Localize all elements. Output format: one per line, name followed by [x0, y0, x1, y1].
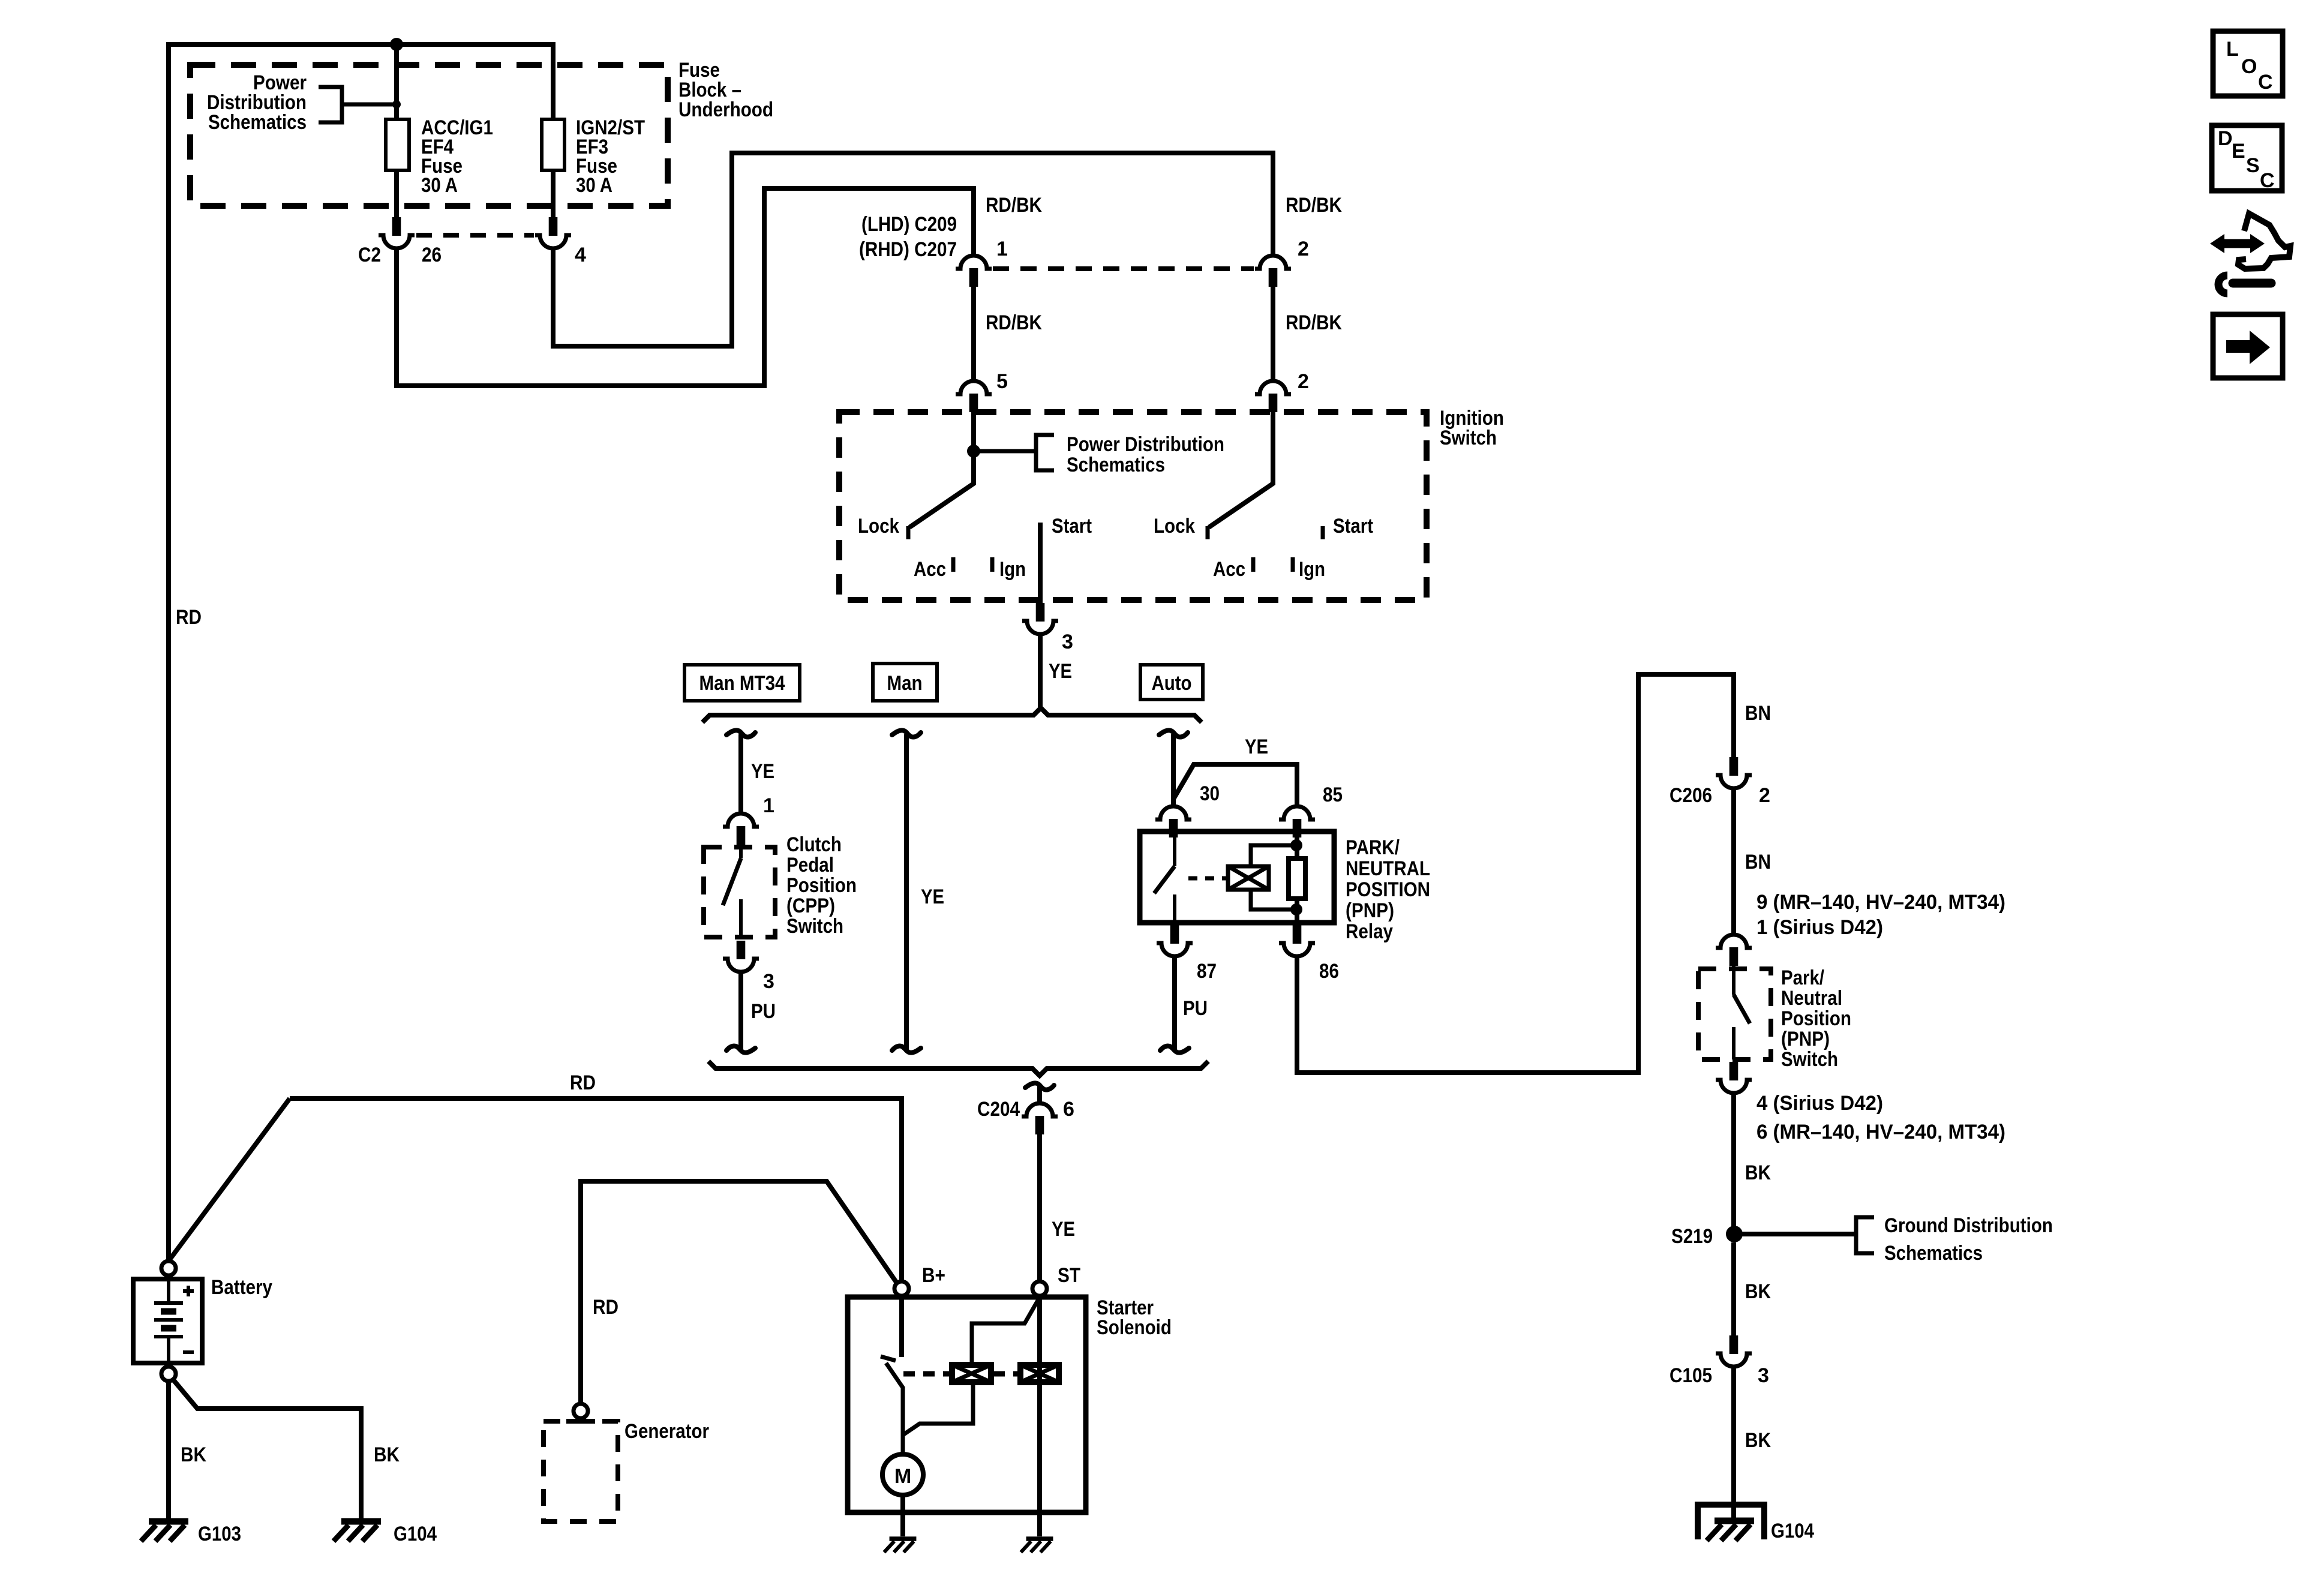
svg-text:Neutral: Neutral	[1781, 987, 1842, 1010]
svg-text:(PNP): (PNP)	[1781, 1028, 1830, 1050]
svg-text:Auto: Auto	[1152, 672, 1192, 695]
svg-text:4: 4	[575, 244, 586, 266]
svg-text:BK: BK	[1745, 1161, 1771, 1184]
svg-text:BN: BN	[1745, 851, 1771, 873]
svg-text:5: 5	[996, 370, 1008, 393]
svg-text:E: E	[2232, 140, 2245, 163]
svg-text:C2: C2	[358, 244, 381, 266]
svg-text:C204: C204	[977, 1098, 1020, 1121]
svg-text:BK: BK	[181, 1443, 206, 1466]
svg-text:Park/: Park/	[1781, 966, 1824, 989]
svg-text:S219: S219	[1671, 1225, 1713, 1248]
svg-text:6 (MR–140, HV–240, MT34): 6 (MR–140, HV–240, MT34)	[1756, 1121, 2005, 1143]
svg-text:Man MT34: Man MT34	[699, 672, 785, 695]
svg-text:RD: RD	[593, 1296, 618, 1319]
svg-text:RD/BK: RD/BK	[986, 311, 1042, 334]
svg-text:Generator: Generator	[624, 1420, 709, 1443]
svg-text:BN: BN	[1745, 702, 1771, 725]
svg-text:BK: BK	[1745, 1429, 1771, 1452]
svg-text:Clutch: Clutch	[786, 833, 842, 856]
svg-text:ST: ST	[1058, 1264, 1080, 1287]
svg-text:Battery: Battery	[211, 1276, 272, 1299]
svg-text:30 A: 30 A	[576, 174, 612, 197]
svg-text:POSITION: POSITION	[1346, 878, 1430, 901]
svg-text:YE: YE	[1245, 736, 1268, 758]
svg-text:S: S	[2246, 154, 2260, 177]
svg-text:M: M	[894, 1465, 911, 1488]
svg-text:PARK/: PARK/	[1346, 836, 1400, 859]
svg-text:Start: Start	[1333, 515, 1373, 538]
svg-text:Relay: Relay	[1346, 920, 1393, 943]
svg-text:NEUTRAL: NEUTRAL	[1346, 857, 1430, 880]
svg-text:3: 3	[1062, 631, 1073, 653]
svg-text:1 (Sirius D42): 1 (Sirius D42)	[1756, 916, 1883, 939]
svg-text:Man: Man	[887, 672, 923, 695]
svg-text:Solenoid: Solenoid	[1097, 1316, 1172, 1339]
svg-text:85: 85	[1323, 784, 1343, 806]
svg-text:2: 2	[1298, 238, 1309, 260]
svg-text:Position: Position	[786, 874, 857, 897]
svg-text:Switch: Switch	[1440, 427, 1497, 449]
svg-text:30: 30	[1200, 782, 1220, 805]
svg-text:G103: G103	[198, 1523, 241, 1545]
svg-text:Schematics: Schematics	[208, 111, 307, 134]
svg-text:RD: RD	[570, 1071, 596, 1094]
svg-text:1: 1	[996, 238, 1008, 260]
svg-text:RD/BK: RD/BK	[1286, 311, 1342, 334]
svg-text:C105: C105	[1670, 1364, 1712, 1387]
svg-text:(LHD) C209: (LHD) C209	[861, 213, 957, 236]
svg-text:2: 2	[1298, 370, 1309, 393]
svg-text:YE: YE	[1049, 660, 1072, 683]
svg-text:Underhood: Underhood	[678, 98, 773, 121]
svg-text:Lock: Lock	[858, 515, 899, 538]
svg-text:Switch: Switch	[1781, 1048, 1838, 1071]
svg-text:YE: YE	[1052, 1218, 1075, 1241]
svg-text:Schematics: Schematics	[1884, 1242, 1983, 1265]
svg-text:G104: G104	[394, 1523, 437, 1545]
svg-text:C206: C206	[1670, 784, 1712, 807]
svg-text:Switch: Switch	[786, 915, 843, 938]
svg-text:BK: BK	[1745, 1280, 1771, 1303]
svg-text:Schematics: Schematics	[1067, 454, 1165, 476]
svg-text:Power Distribution: Power Distribution	[1067, 433, 1224, 456]
svg-text:YE: YE	[921, 885, 944, 908]
svg-text:Position: Position	[1781, 1007, 1851, 1030]
svg-text:YE: YE	[751, 760, 774, 783]
svg-text:3: 3	[1758, 1364, 1769, 1387]
svg-text:PU: PU	[751, 1000, 776, 1023]
svg-text:B+: B+	[922, 1264, 945, 1287]
svg-text:Acc: Acc	[914, 558, 946, 581]
svg-text:RD/BK: RD/BK	[1286, 194, 1342, 217]
svg-text:(CPP): (CPP)	[786, 894, 835, 917]
svg-text:PU: PU	[1183, 997, 1208, 1020]
svg-text:3: 3	[763, 970, 774, 993]
svg-text:Acc: Acc	[1213, 558, 1245, 581]
svg-text:Start: Start	[1052, 515, 1092, 538]
svg-text:87: 87	[1197, 960, 1217, 983]
svg-text:(RHD) C207: (RHD) C207	[859, 238, 957, 261]
svg-text:30 A: 30 A	[421, 174, 458, 197]
svg-text:6: 6	[1063, 1098, 1074, 1121]
svg-text:D: D	[2218, 127, 2233, 150]
svg-text:1: 1	[763, 794, 774, 817]
svg-text:C: C	[2258, 71, 2273, 94]
svg-text:Ign: Ign	[999, 558, 1026, 581]
svg-text:4 (Sirius D42): 4 (Sirius D42)	[1756, 1092, 1883, 1115]
svg-text:L: L	[2226, 38, 2239, 61]
svg-text:2: 2	[1759, 784, 1770, 807]
svg-text:9 (MR–140, HV–240, MT34): 9 (MR–140, HV–240, MT34)	[1756, 891, 2005, 914]
svg-text:RD/BK: RD/BK	[986, 194, 1042, 217]
svg-text:26: 26	[422, 244, 442, 266]
svg-text:C: C	[2260, 169, 2275, 192]
svg-text:Lock: Lock	[1154, 515, 1195, 538]
svg-text:Pedal: Pedal	[786, 854, 834, 876]
svg-text:86: 86	[1319, 960, 1339, 983]
svg-text:(PNP): (PNP)	[1346, 899, 1394, 922]
svg-text:RD: RD	[176, 606, 202, 629]
svg-text:O: O	[2241, 55, 2257, 78]
svg-text:Ground Distribution: Ground Distribution	[1884, 1214, 2053, 1237]
svg-text:G104: G104	[1771, 1520, 1814, 1542]
svg-text:Ign: Ign	[1299, 558, 1325, 581]
svg-text:BK: BK	[374, 1443, 400, 1466]
